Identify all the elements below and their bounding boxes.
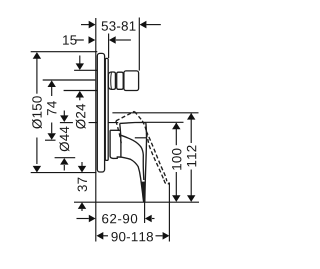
dimension D44 [60, 111, 68, 171]
dimension 62-90 [77, 215, 155, 223]
end cylinder [124, 71, 139, 91]
extension line handle top left [60, 122, 73, 124]
middle cylinder [117, 72, 124, 89]
dimension 37 [78, 162, 86, 211]
extension line 15 right [108, 34, 110, 59]
top knob assembly [108, 71, 138, 91]
extension line 53-81 right [138, 18, 140, 71]
extension line lever tip level [74, 201, 199, 203]
escutcheon plate (side view) [97, 53, 108, 172]
dimension 100 [172, 123, 180, 202]
dimension 53-81 [81, 21, 161, 29]
extension line knob axis [43, 79, 96, 81]
extension line open tip vertical [168, 183, 170, 242]
dimension 90-118 [97, 232, 170, 240]
dimension 15 [75, 36, 131, 44]
neck left and bottom [110, 130, 121, 158]
dimension 74 [48, 80, 56, 139]
extension line plate top [31, 51, 98, 53]
extension line knob top [74, 69, 108, 71]
pivot seam line [135, 137, 147, 139]
extension line plate bottom [31, 172, 97, 174]
tip fill [141, 182, 145, 202]
front collar [105, 58, 108, 160]
inner curve [121, 135, 144, 180]
dimension D24 [76, 56, 84, 101]
extension line open handle top [112, 112, 198, 114]
dimension 112 [187, 113, 195, 202]
dome piece [108, 72, 115, 89]
handle (open position, dashed) [116, 111, 169, 184]
handle (closed position) [110, 122, 146, 201]
extension line knob bottom [64, 90, 109, 92]
extension line closed tip vertical [144, 203, 146, 224]
extension line handle axis [45, 139, 56, 141]
neck top [110, 129, 121, 131]
extension line closed handle top right [147, 121, 184, 123]
extension line handle bottom [55, 157, 76, 159]
wall line [95, 18, 97, 242]
dimension D150 [33, 52, 41, 172]
hood outline [120, 122, 147, 201]
